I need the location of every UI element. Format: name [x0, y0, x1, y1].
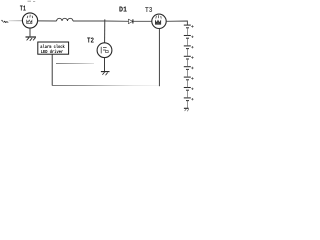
battery BT1: bottom terminal: [184, 108, 189, 111]
battery BT1: long plates: [184, 25, 191, 98]
svg-text:T2: T2: [87, 37, 94, 45]
svg-text:D1: D1: [119, 7, 127, 15]
ground under T2: [101, 72, 110, 76]
battery BT1: + polarity marks: [191, 25, 193, 100]
wire: inductor to junction: [73, 20, 105, 22]
battery BT1: inter-cell wires: [186, 28, 188, 109]
wire: T1 bottom stem: [29, 28, 31, 37]
transducer T3: [145, 7, 166, 29]
svg-text:T3: T3: [145, 7, 153, 15]
wire: T2 bottom stem: [104, 58, 106, 72]
diode D1: [119, 7, 133, 24]
scan artifact smudge: [28, 0, 36, 2]
wire: T3 to battery corner: [166, 21, 187, 25]
wire: T1 to inductor: [37, 20, 56, 22]
wire: diode to T3: [133, 20, 152, 22]
battery BT1: short plates: [186, 28, 189, 101]
wire: left label to T1: [9, 20, 23, 22]
wire: box bottom stem: [51, 54, 53, 85]
svg-text:T1: T1: [20, 5, 27, 13]
node PWR (tiny net label, far left): [2, 20, 9, 22]
wire: bottom rail (fading right): [52, 85, 159, 87]
transducer T1: [20, 5, 38, 28]
wire: faded branch from box stem: [56, 63, 94, 65]
svg-text:LED driver: LED driver: [41, 49, 64, 55]
inductor L1: [57, 18, 73, 21]
block U1 (display driver box): [38, 42, 69, 55]
transducer T2: [87, 37, 112, 57]
wire: junction down to T2: [104, 19, 106, 42]
ground under T1: [26, 37, 37, 41]
wire: junction to diode: [105, 20, 129, 22]
wire: T3 bottom stem: [158, 29, 160, 87]
